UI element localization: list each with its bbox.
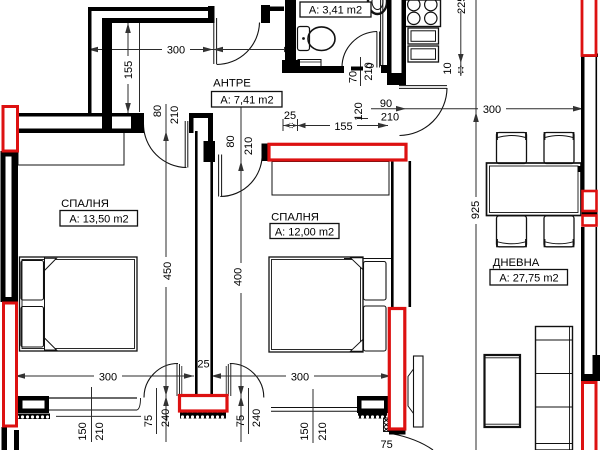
wall: top outer vertical left [88,7,92,115]
wall: inner core vertical [102,18,112,131]
chair 3 [497,216,527,248]
svg-text:300: 300 [483,104,501,116]
wall: right cap above bottom red window [581,374,600,381]
wall pier bedroom1 bottom (outlined) [18,396,49,413]
balcony door living room arc [391,434,433,450]
text 300 top [162,43,190,57]
wall: left exterior inner line upper [12,151,19,302]
wall: corridor cap right bar [208,113,213,146]
dimension 450 vertical line bedroom1 [165,104,167,442]
svg-text:210: 210 [94,422,106,440]
partition bathroom/kitchen thin double line [380,0,382,66]
wall: kitchen column left bar [387,0,392,78]
bathroom sink [368,0,387,14]
wall: bathroom left [285,0,296,62]
text 300 bedroom1 bottom [94,370,122,384]
bed B1 outer [20,257,138,351]
door jamb lines bottom window left [176,364,178,396]
svg-text:240: 240 [251,409,263,427]
bed B1 fold top [45,258,57,270]
wall: right exterior outer line lower [596,227,598,355]
partition bedroom2 top (red bar) [269,144,406,160]
wall: corridor door-frame block bedroom2 [204,141,216,162]
kitchen unit square 2 [408,46,439,62]
window W3 bedroom1 bottom (red) [180,396,228,412]
wall: bedroom1 top cap at door [131,113,144,133]
svg-text:150: 150 [77,422,89,440]
wall: right exterior inner bar upper [581,57,585,190]
svg-text:300: 300 [291,372,309,384]
text 300 bedroom2 bottom [286,370,314,384]
bed B1 fold bottom [45,338,57,350]
separator small lines for bottom fraction labels [91,387,93,442]
wall: top outer horizontal [88,7,212,11]
wall: left exterior outer line upper [1,151,6,302]
door D1 bedroom1 top: leaf [185,121,188,168]
text 400 (rotated) [231,263,245,293]
hatch strip below pier 2 [358,413,387,419]
wall: kitchen column right bar [402,0,407,85]
door D2 arc [220,151,262,197]
svg-text:10: 10 [442,62,454,74]
entry door leaf [214,18,217,64]
bed B2 pillow 1 [364,262,387,301]
wall: left cap above window W2 [1,297,18,302]
stove [405,0,441,27]
toilet tank knob [302,37,305,40]
dimension 300 top arrows [88,47,294,53]
wall: bedroom1 top outer line [13,113,144,117]
kitchen door leaf [399,86,447,89]
extension line next to 155 [139,23,141,112]
bathroom door arc [342,32,377,68]
svg-text:A: 27,75 m2: A: 27,75 m2 [499,273,558,285]
bed B2 fold top [351,258,363,270]
text 300 kitchen-living [478,103,506,116]
window W2 left bottom (red) [4,303,17,426]
svg-text:120: 120 [353,102,365,120]
chair 2 [544,132,574,164]
wall: left exterior outer line bottom [2,427,8,450]
kitchen unit square 1 [408,28,439,44]
wall pier bedroom2 bottom (outlined) [357,396,389,413]
window W1 left top (red) [3,107,18,152]
svg-text:925: 925 [470,201,482,219]
svg-text:75: 75 [143,415,155,427]
dimension 925 long vertical line [475,0,477,450]
bed B2 head line [344,258,391,260]
sill lines bedroom2 bottom [271,407,357,409]
svg-text:75: 75 [381,439,393,450]
dimension 25+155 line above bedroom2 [283,125,388,127]
door jamb lines bottom window right [227,364,229,396]
wall: bathroom bottom-left L piece [282,60,300,73]
chair 1 [497,132,527,164]
hatch strip below red window bedroom1 [180,413,226,419]
threshold black blob at bathroom door [351,67,363,71]
wall: right black block [593,355,600,381]
wall: black bar between mid red windows [582,212,598,216]
partition cap black left of red bar [262,144,269,162]
wall: bedroom2 right outer line [409,161,412,307]
svg-text:155: 155 [123,61,135,79]
bathroom door leaf [377,32,380,68]
bed B1 inner double line [22,260,135,349]
wall: thin top piece right of entry [270,7,284,12]
entry door arc [217,23,260,65]
balcony door bedroom1: arc [144,364,178,398]
wall: corridor cap top bar [189,113,213,118]
bed B1 pillow 1 [21,261,44,301]
closet bedroom1 [18,131,124,165]
wall: left exterior inner line bottom [14,430,19,450]
balcony door bedroom2: arc [230,364,264,398]
area box ДНЕВНА [490,270,568,286]
wall: corridor cap left bar [189,113,194,133]
TV panel [414,356,424,427]
chair 4 [544,216,574,248]
wall: black cap below bedroom2 red window [389,431,406,435]
area box СПАЛНЯ 2 [270,224,339,239]
toilet tank [298,27,310,51]
dimension 300 bedroom2 bottom: line [211,375,391,377]
dimension 400 vertical line bedroom2 [240,104,242,442]
coffee table [485,355,521,427]
svg-text:400: 400 [233,268,245,286]
room label bathroom area box [300,2,371,17]
wall: right exterior outer line upper [596,57,598,190]
svg-text:СПАЛНЯ: СПАЛНЯ [61,198,109,210]
svg-text:210: 210 [169,106,181,124]
svg-text:АНТРЕ: АНТРЕ [213,78,251,90]
kitchen door arc [400,88,448,136]
dimension 225/10 vertical line kitchen [460,11,462,76]
svg-text:150: 150 [299,422,311,440]
window W6 right middle upper (red) [583,191,597,211]
wall: corridor left line [195,131,198,396]
svg-text:A: 3,41 m2: A: 3,41 m2 [309,5,362,17]
toilet bowl [308,27,335,51]
bed B1 headboard line [44,257,46,351]
extension ticks for 25 [282,119,284,131]
text 450 (rotated) [160,257,174,287]
x-hatch bar below pier 2 [384,418,390,432]
text 155 above bedroom2 [330,120,357,133]
area box СПАЛНЯ 1 [60,211,138,227]
bed B1 pillow 2 [21,307,44,348]
svg-text:210: 210 [363,62,375,80]
svg-text:240: 240 [160,409,172,427]
sill lines bedroom1 bottom [49,397,137,399]
area box АНТРЕ [212,92,283,108]
wall: right cap below top red window [581,54,598,58]
bed B2 outer [269,257,363,352]
svg-text:80: 80 [152,105,164,117]
wall: corridor right line [210,131,213,396]
fraction separator 70/210 bathroom door [360,57,362,86]
svg-text:ДНЕВНА: ДНЕВНА [493,257,540,269]
dimension 300 bedroom1 bottom: line [15,375,194,377]
TV stand trapezoid [408,369,414,414]
svg-text:210: 210 [317,422,329,440]
shower tray [298,60,321,70]
svg-text:300: 300 [99,372,117,384]
door D1 arc [144,125,187,168]
svg-text:A: 13,50 m2: A: 13,50 m2 [69,214,128,226]
text 155 top-left (rotated) [122,56,135,84]
wall: tick at table-wall junction [578,166,584,172]
svg-text:СПАЛНЯ: СПАЛНЯ [271,212,319,224]
wall: top cap at entry door [208,6,215,23]
svg-text:300: 300 [167,45,185,57]
wall: entry door right cap [261,5,270,23]
wall: kitchen column notch [381,65,391,73]
window W8 right bottom (red) [583,383,597,450]
wall: bathroom bottom [300,66,344,73]
window W7 right middle lower (red) [583,216,597,226]
wall: top inner horizontal [102,18,209,23]
bed B2 inner double line [272,260,361,350]
bed B2 pillow 2 [364,306,387,351]
svg-text:155: 155 [334,121,352,133]
dimension 155 vertical line [127,23,129,113]
svg-text:210: 210 [381,112,399,124]
svg-text:210: 210 [243,137,255,155]
closet bedroom2 [272,162,389,196]
svg-text:A: 12,00 m2: A: 12,00 m2 [275,227,334,239]
wall: bedroom1 top inner line [16,129,144,134]
svg-text:25: 25 [284,110,296,122]
svg-text:A: 7,41 m2: A: 7,41 m2 [220,95,273,107]
dimension 300 top: line [88,49,294,51]
bathroom door handle [367,64,374,68]
svg-text:450: 450 [162,262,174,280]
dining table [487,163,582,216]
svg-text:70: 70 [348,71,360,83]
fraction line 90/210 + dimension 300 kitchen: line [371,108,583,110]
svg-text:25: 25 [197,359,209,371]
wall: left cap below window W1 [1,151,18,157]
text 925 (rotated) [467,197,482,224]
wall: right exterior inner bar lower [581,227,585,374]
wall: bedroom2 right inner line [391,161,394,307]
wall: kitchen column bottom [387,73,406,85]
dimension 120 tick line [357,118,369,120]
svg-text:90: 90 [380,98,392,110]
svg-text:225: 225 [456,0,468,14]
door D2 bedroom2 top: leaf [219,155,222,197]
hatch strip below pier 1 [18,414,50,420]
window W5 right top (red) [582,0,596,56]
sofa [536,327,573,450]
bed B2 fold bottom [351,340,363,352]
window W4 bedroom2 right (red) [389,309,405,430]
svg-text:80: 80 [225,135,237,147]
svg-text:75: 75 [235,415,247,427]
